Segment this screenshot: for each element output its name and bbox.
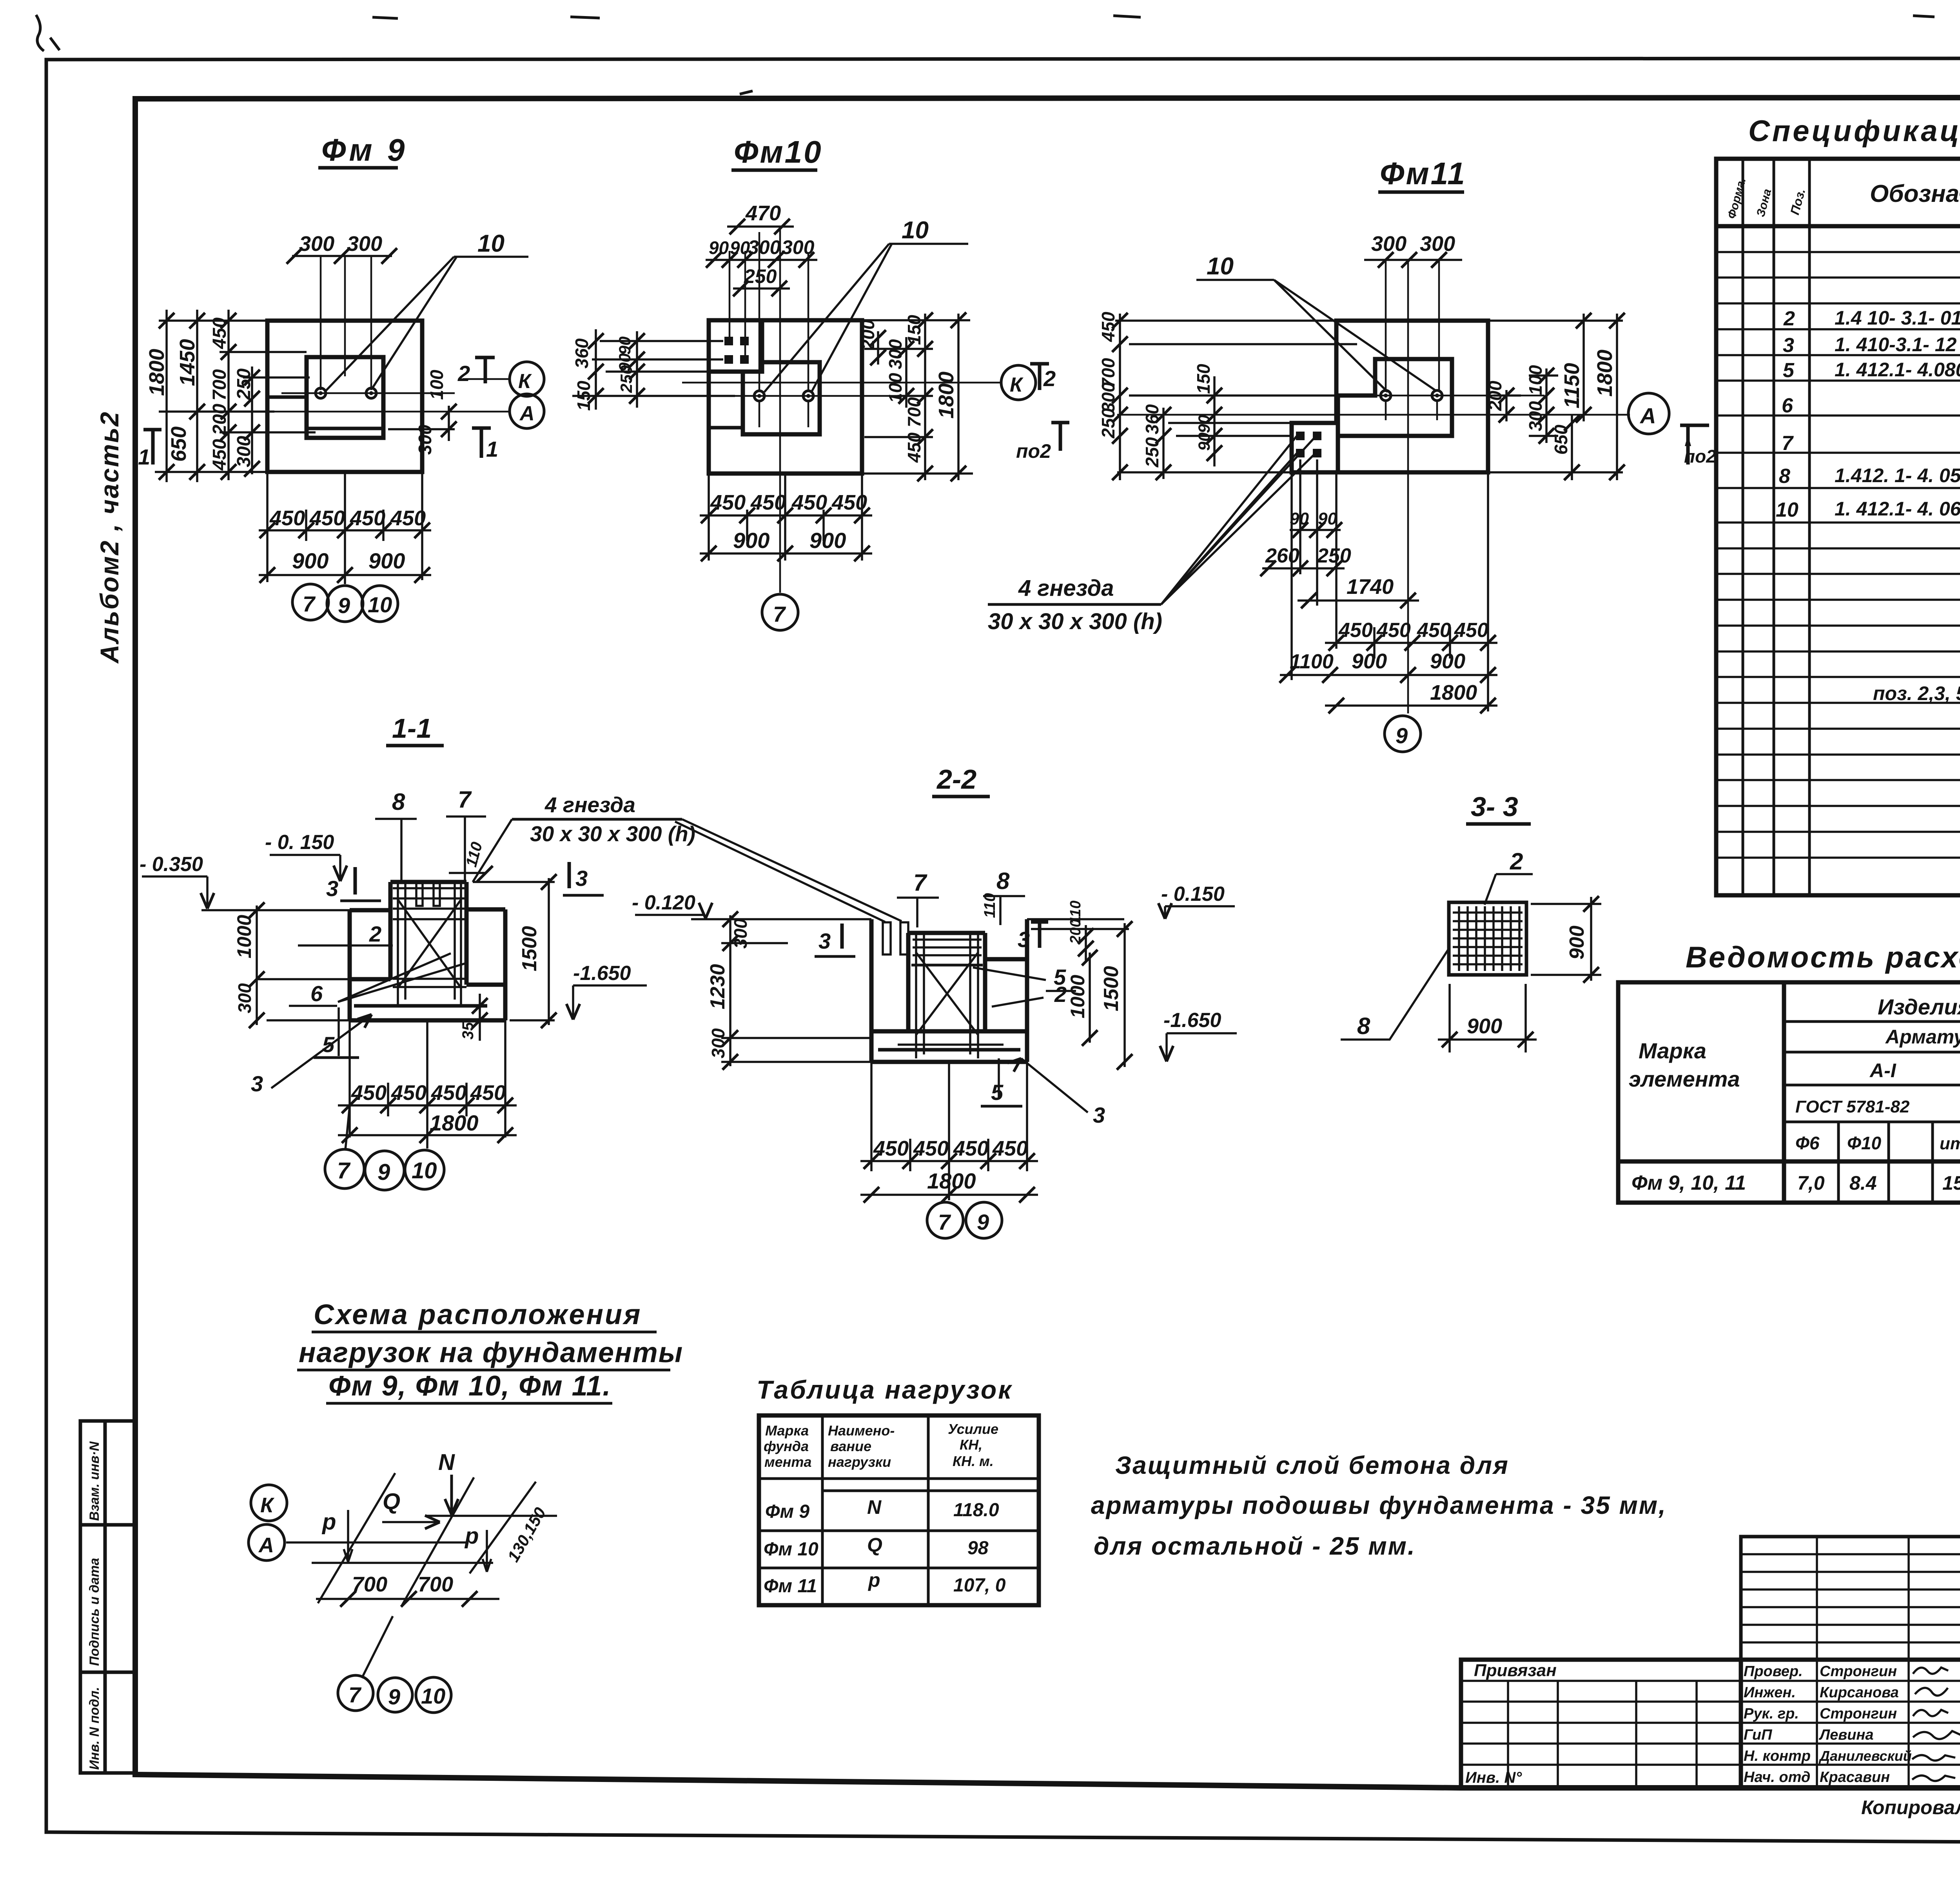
column outline [1338,359,1452,436]
svg-text:150: 150 [1193,364,1214,394]
svg-text:Арматура класса: Арматура класса [1885,1026,1960,1048]
svg-text:900: 900 [1467,1014,1502,1038]
svg-text:-1.650: -1.650 [573,962,631,985]
svg-text:10: 10 [421,1684,445,1708]
svg-text:98: 98 [967,1538,989,1559]
svg-text:10: 10 [412,1158,437,1183]
svg-text:2: 2 [457,361,470,386]
svg-text:10: 10 [368,592,392,617]
svg-text:Обозначение: Обозначение [1870,180,1960,207]
svg-text:Марка: Марка [1639,1038,1706,1063]
svg-text:-1.650: -1.650 [1163,1009,1221,1032]
svg-text:450: 450 [391,1081,426,1105]
svg-text:900: 900 [368,548,405,573]
svg-text:150: 150 [904,315,924,345]
svg-text:1000: 1000 [233,915,255,958]
axis circles K A [251,1485,287,1521]
svg-text:900: 900 [292,548,328,573]
svg-text:1500: 1500 [518,926,541,971]
svg-text:Рук. гр.: Рук. гр. [1744,1706,1799,1722]
svg-text:- 0.150: - 0.150 [1161,883,1225,905]
axis circle K and section marks [1001,365,1036,400]
svg-text:2: 2 [1054,982,1067,1007]
svg-text:мента: мента [764,1454,811,1470]
svg-text:Защитный слой бетона для: Защитный слой бетона для [1115,1451,1509,1479]
svg-text:К: К [260,1493,275,1517]
svg-text:900: 900 [809,528,846,553]
svg-text:900: 900 [1352,650,1387,673]
svg-text:10: 10 [1776,499,1798,521]
svg-text:Форма.: Форма. [1725,176,1749,220]
svg-text:1450: 1450 [176,339,199,386]
svg-text:1150: 1150 [1560,363,1584,408]
svg-text:700: 700 [209,369,230,401]
svg-text:250: 250 [1098,408,1118,439]
ground line [201,910,350,1020]
bottom circle 9 [1385,716,1421,752]
svg-text:90: 90 [709,238,729,258]
svg-text:250: 250 [1317,544,1351,567]
svg-text:30 x 30 x 300 (h): 30 x 30 x 300 (h) [530,822,695,846]
svg-text:7: 7 [773,602,786,626]
svg-text:110: 110 [1067,900,1084,924]
svg-text:300: 300 [1525,401,1546,431]
svg-text:3: 3 [1018,927,1030,952]
svg-text:Зона: Зона [1754,187,1774,218]
top dim 300 300 [1364,259,1462,261]
circles 7 9 [927,1202,963,1238]
svg-text:900: 900 [1430,650,1465,673]
svg-text:900: 900 [1566,925,1588,960]
svg-text:450: 450 [831,491,867,514]
svg-text:Марка: Марка [765,1423,809,1439]
svg-text:1-1: 1-1 [392,713,432,744]
svg-text:90: 90 [1195,415,1213,433]
svg-text:Данилевский: Данилевский [1818,1748,1912,1764]
pit and foundation outline [871,919,1027,1062]
svg-text:поз. 2,3, 5÷8,10: поз. 2,3, 5÷8,10 [1873,682,1960,704]
plate bolts [1296,432,1321,457]
svg-text:1800: 1800 [927,1169,976,1193]
top dim 90 90 300 300 [706,259,817,261]
right dims [862,314,973,480]
svg-text:Изделия арматурные: Изделия арматурные [1878,994,1960,1019]
svg-text:1: 1 [486,437,498,461]
svg-text:260: 260 [1265,544,1299,567]
anchor bolt circles [1381,390,1442,401]
svg-text:9: 9 [977,1210,989,1234]
svg-text:Красавин: Красавин [1820,1769,1890,1785]
svg-text:1: 1 [138,445,150,469]
svg-text:Фм 9: Фм 9 [765,1501,809,1522]
svg-text:300: 300 [415,425,435,455]
svg-text:нагрузок на фундаменты: нагрузок на фундаменты [299,1337,683,1368]
svg-text:15.4: 15.4 [1942,1172,1960,1194]
foundation outline [350,882,505,1020]
right small dims 100 300 [388,406,455,441]
svg-text:30 x 30 x 300 (h): 30 x 30 x 300 (h) [988,609,1162,634]
svg-text:арматуры подошвы фундамента -: арматуры подошвы фундамента - 35 мм, [1091,1491,1667,1519]
svg-text:3: 3 [1783,334,1794,357]
svg-text:900: 900 [733,528,769,553]
svg-text:8: 8 [996,868,1010,894]
svg-text:8.4: 8.4 [1849,1172,1877,1194]
svg-text:К: К [518,370,532,393]
svg-text:200: 200 [209,404,230,435]
svg-text:150: 150 [573,381,594,411]
anchor bolt circles [754,391,813,401]
svg-text:90: 90 [1318,509,1337,528]
svg-text:5: 5 [991,1080,1004,1105]
svg-text:450: 450 [350,506,385,530]
svg-text:Провер.: Провер. [1744,1663,1803,1680]
svg-text:300: 300 [299,232,334,256]
svg-text:300: 300 [885,339,906,369]
svg-text:450: 450 [904,432,924,463]
svg-text:ГиП: ГиП [1744,1727,1772,1743]
signatures squiggles [1912,1668,1960,1781]
svg-text:100: 100 [426,370,447,400]
svg-text:1000: 1000 [1067,975,1089,1018]
svg-text:1.412. 1- 4. 050: 1.412. 1- 4. 050 [1835,465,1960,486]
svg-text:450: 450 [710,491,746,514]
svg-text:130,150: 130,150 [504,1504,550,1565]
svg-text:Левина: Левина [1818,1727,1874,1743]
svg-text:Спецификация монолитных фунд: Спецификация монолитных фундаментов [1748,114,1960,148]
rebar cage [393,883,466,1006]
dim 250 [733,287,790,290]
svg-text:5: 5 [322,1032,335,1057]
svg-text:Схема расположения: Схема расположения [314,1299,642,1330]
svg-text:300: 300 [748,236,781,258]
svg-text:Поз.: Поз. [1788,187,1808,216]
svg-text:3: 3 [818,929,831,953]
svg-text:450: 450 [1098,312,1118,342]
svg-text:7: 7 [913,869,927,896]
svg-text:450: 450 [1338,619,1373,642]
svg-text:7: 7 [458,786,472,813]
svg-text:470: 470 [745,201,781,225]
svg-text:3- 3: 3- 3 [1471,791,1518,822]
svg-text:100: 100 [1525,365,1546,395]
svg-text:450: 450 [791,491,827,514]
svg-text:N: N [867,1496,882,1518]
svg-text:450: 450 [1417,619,1451,642]
svg-text:Фм 9: Фм 9 [321,132,408,167]
bottom dims [259,472,431,584]
svg-text:Нач. отд: Нач. отд [1744,1769,1810,1785]
spec table grid [1716,159,1960,895]
svg-text:2: 2 [1510,848,1523,875]
column square [307,357,383,438]
svg-text:250: 250 [234,368,254,400]
svg-text:1. 412.1- 4.080: 1. 412.1- 4.080 [1835,359,1960,381]
svg-text:Ф10: Ф10 [1847,1133,1881,1153]
svg-text:1. 410-3.1- 12: 1. 410-3.1- 12 [1835,334,1957,356]
svg-text:300: 300 [347,232,382,256]
centrelines [1117,260,1630,713]
svg-text:450: 450 [992,1137,1028,1160]
svg-text:Усилие: Усилие [948,1421,998,1437]
svg-text:1230: 1230 [706,964,729,1009]
svg-text:1800: 1800 [1593,350,1617,397]
outer footing square [709,320,862,474]
svg-text:Ведомость расхода стали на оди: Ведомость расхода стали на один элемент,… [1686,941,1960,974]
bottom dims [860,1062,1038,1200]
svg-text:90: 90 [615,336,634,355]
svg-text:300: 300 [234,983,255,1013]
svg-text:2: 2 [369,922,381,946]
svg-text:Наимено-: Наимено- [828,1423,895,1439]
dim 700 700 [316,1598,499,1600]
load table grid [759,1415,1039,1605]
svg-text:ГОСТ 5781-82: ГОСТ 5781-82 [1795,1097,1910,1116]
bottom dims [700,474,872,561]
svg-text:по2: по2 [1684,446,1716,466]
svg-text:90: 90 [730,238,750,258]
svg-text:300: 300 [234,436,254,467]
svg-text:300: 300 [1371,232,1406,256]
right dims [1488,314,1623,480]
ground lines [691,918,1124,920]
svg-text:2: 2 [1783,307,1795,330]
svg-text:А: А [258,1533,274,1557]
svg-text:200: 200 [858,319,878,350]
svg-text:p: p [464,1523,479,1549]
svg-text:107, 0: 107, 0 [953,1575,1006,1596]
svg-text:300: 300 [730,918,751,949]
svg-text:Стронгин: Стронгин [1820,1663,1897,1680]
svg-text:4 гнезда: 4 гнезда [1018,575,1114,601]
right dim 900 [1531,897,1601,981]
svg-text:Фм10: Фм10 [734,134,823,169]
svg-text:7: 7 [337,1158,351,1183]
svg-text:3: 3 [1093,1103,1105,1127]
svg-text:1800: 1800 [1430,681,1477,704]
svg-text:3: 3 [575,866,588,891]
svg-text:8: 8 [1357,1013,1370,1039]
svg-text:200: 200 [1485,381,1505,411]
svg-text:К: К [1010,374,1024,396]
svg-text:Инв. N подл.: Инв. N подл. [87,1687,102,1770]
svg-text:2: 2 [1043,366,1056,391]
svg-text:9: 9 [1396,723,1408,748]
axis circle A [510,394,544,428]
svg-text:1800: 1800 [430,1110,479,1135]
svg-text:1800: 1800 [145,349,169,396]
plate edge [1336,423,1340,472]
left stamp boxes [80,1421,135,1773]
bottom axis circles 7 9 10 [292,584,328,620]
svg-text:элемента: элемента [1629,1067,1740,1091]
section mark 1 right [472,428,491,458]
svg-text:Фм11: Фм11 [1380,156,1466,191]
centrelines [682,229,1002,593]
svg-text:нагрузки: нагрузки [828,1454,891,1470]
svg-text:450: 450 [269,506,305,530]
svg-text:450: 450 [470,1081,506,1105]
svg-text:300: 300 [782,236,815,258]
bottom circle 7 [762,594,798,630]
svg-text:90: 90 [1195,432,1213,451]
svg-text:7: 7 [1782,432,1794,455]
svg-text:Ф6: Ф6 [1795,1133,1820,1153]
svg-text:Стронгин: Стронгин [1820,1706,1897,1722]
top dim 470 [727,225,794,228]
svg-text:1740: 1740 [1347,575,1394,599]
section mark 1 left [143,430,162,465]
svg-text:Инв. N°: Инв. N° [1465,1769,1522,1786]
svg-text:4 гнезда: 4 гнезда [544,793,635,817]
mesh plate [1449,902,1526,975]
svg-text:1100: 1100 [1290,650,1334,673]
svg-text:450: 450 [953,1137,989,1160]
svg-text:8: 8 [1779,465,1790,488]
svg-text:300: 300 [708,1028,728,1058]
svg-text:7: 7 [938,1210,951,1234]
svg-text:9: 9 [338,593,350,618]
svg-text:Q: Q [867,1534,882,1556]
svg-text:9: 9 [388,1684,400,1709]
svg-text:КН,: КН, [960,1437,982,1453]
section mark po2 [1680,425,1709,465]
scheme lines [286,1473,557,1678]
bottom dims [1262,459,1497,711]
top dim 300 300 [292,255,392,257]
right dims [1031,923,1129,1067]
svg-text:фунда: фунда [764,1438,809,1454]
right dim 1500 [473,878,555,1025]
sockets [883,922,908,954]
svg-text:9: 9 [377,1159,390,1185]
svg-text:1. 412.1- 4. 060: 1. 412.1- 4. 060 [1835,498,1960,520]
main bottom block [1461,1660,1960,1788]
svg-text:Таблица нагрузок: Таблица нагрузок [757,1375,1013,1404]
left dim chains [155,310,316,482]
svg-text:5: 5 [1783,359,1795,382]
svg-text:N: N [438,1450,455,1475]
svg-text:для остальной - 25 мм.: для остальной - 25 мм. [1094,1532,1416,1560]
svg-text:8: 8 [392,789,405,815]
svg-text:6: 6 [1782,394,1793,417]
axis circle K [510,362,544,396]
svg-text:10: 10 [477,230,505,257]
svg-text:- 0. 150: - 0. 150 [265,831,334,854]
svg-text:- 0.120: - 0.120 [632,891,695,914]
svg-text:700: 700 [352,1573,387,1596]
svg-text:450: 450 [309,506,345,530]
svg-text:700: 700 [904,397,924,427]
svg-text:7: 7 [303,592,316,616]
svg-text:по2: по2 [1016,440,1051,462]
svg-text:250: 250 [617,365,635,393]
centrelines [274,257,510,412]
svg-text:100: 100 [885,373,906,403]
plate bolts [724,337,749,364]
svg-text:Подпись и дата: Подпись и дата [87,1558,102,1666]
svg-text:p: p [321,1509,336,1535]
left dims [1115,314,1357,480]
section mark 2 top [475,357,495,383]
svg-text:118.0: 118.0 [953,1500,999,1521]
svg-text:КН. м.: КН. м. [953,1453,994,1469]
svg-text:- 0.350: - 0.350 [140,853,203,876]
svg-text:360: 360 [1142,404,1162,434]
svg-text:Альбом2 , часть2: Альбом2 , часть2 [95,411,124,664]
column outline [743,362,820,434]
svg-text:1.4 10- 3.1- 01: 1.4 10- 3.1- 01 [1835,307,1960,329]
svg-text:450: 450 [1376,619,1411,642]
outer footing outline [1292,321,1488,472]
svg-text:7,0: 7,0 [1797,1172,1825,1194]
svg-text:650: 650 [167,426,191,462]
circles 7 9 10 [325,1149,364,1189]
svg-text:Н. контр: Н. контр [1744,1748,1811,1764]
svg-text:Фм 11: Фм 11 [764,1576,817,1597]
svg-text:Привязан: Привязан [1474,1661,1557,1680]
svg-text:450: 450 [209,318,230,349]
svg-text:700: 700 [418,1573,453,1596]
svg-text:6: 6 [310,981,323,1006]
svg-text:Копировал:: Копировал: [1861,1796,1960,1818]
svg-text:110: 110 [463,840,486,869]
svg-text:110: 110 [981,893,998,918]
upper small grid [1741,1537,1960,1660]
left dims [721,915,871,1066]
svg-text:650: 650 [1551,425,1571,455]
svg-text:А-I: А-I [1869,1060,1896,1081]
svg-text:Кирсанова: Кирсанова [1820,1684,1899,1701]
svg-text:450: 450 [390,506,426,530]
svg-text:Инжен.: Инжен. [1744,1684,1796,1701]
svg-text:450: 450 [913,1137,949,1160]
svg-text:7: 7 [348,1682,362,1707]
left dims [256,905,258,1025]
svg-text:р: р [867,1569,880,1591]
svg-text:Взам. инв·N: Взам. инв·N [87,1441,102,1521]
svg-text:Фм 10: Фм 10 [764,1539,818,1560]
anchor bolts [316,388,376,398]
svg-text:300: 300 [1420,232,1455,256]
outer footing square [267,321,422,472]
svg-text:итого: итого [1940,1134,1960,1153]
svg-text:450: 450 [431,1081,466,1105]
svg-text:3: 3 [326,876,338,901]
svg-text:3: 3 [251,1071,263,1096]
svg-text:300: 300 [1098,382,1118,412]
svg-text:450: 450 [209,439,230,471]
anchor plate corner [709,320,762,372]
svg-text:2-2: 2-2 [936,764,976,795]
axis circle A [1628,393,1669,434]
bottom mesh [878,1048,1020,1052]
scan noise marks [36,15,1935,94]
svg-text:450: 450 [351,1081,387,1105]
svg-text:А: А [519,402,535,425]
svg-text:250: 250 [744,265,777,287]
svg-text:вание: вание [830,1438,871,1454]
svg-text:360: 360 [572,338,592,368]
svg-text:450: 450 [750,491,786,514]
left extension lines [572,329,735,410]
svg-text:90: 90 [1290,509,1309,528]
svg-text:А: А [1639,403,1656,428]
svg-text:1800: 1800 [935,372,958,419]
svg-text:1500: 1500 [1100,966,1123,1011]
svg-text:450: 450 [1454,619,1488,642]
bottom mesh [354,1004,487,1008]
svg-text:Фм 9, Фм 10, Фм 11.: Фм 9, Фм 10, Фм 11. [328,1370,611,1402]
